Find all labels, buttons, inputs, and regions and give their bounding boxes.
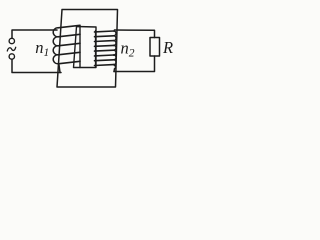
svg-text:R: R [162, 38, 173, 57]
svg-text:n1: n1 [35, 38, 49, 59]
svg-text:n2: n2 [121, 39, 135, 60]
